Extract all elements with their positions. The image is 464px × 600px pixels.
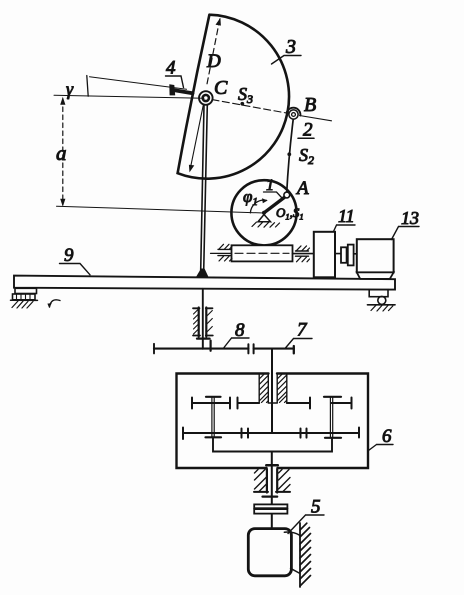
svg-text:D: D xyxy=(206,51,221,72)
gearbox top bearing block left xyxy=(259,374,268,403)
motor 5 xyxy=(248,529,291,576)
label 9 xyxy=(60,245,91,275)
label 2 xyxy=(298,120,314,141)
label gamma xyxy=(66,79,74,99)
svg-text:a: a xyxy=(56,141,67,165)
shaft 8 xyxy=(154,344,248,354)
coupling (stand-motor) xyxy=(341,245,357,266)
label 13 xyxy=(392,208,420,240)
motor 13 xyxy=(357,239,394,279)
label 8 xyxy=(224,320,249,348)
pen 4 xyxy=(169,84,192,95)
gearbox top bearing block right xyxy=(277,374,287,403)
node O1,S1 xyxy=(262,205,304,222)
svg-text:3: 3 xyxy=(285,36,296,58)
connecting frame line (U) xyxy=(213,437,332,451)
node S3 xyxy=(238,84,253,106)
right vertical gear shaft xyxy=(324,397,341,438)
axis extension beyond B xyxy=(300,116,332,121)
shaft bearing (left bracket) xyxy=(193,308,200,337)
coupling on shaft 8/7 xyxy=(248,344,253,353)
crank pivot support xyxy=(252,215,280,228)
small rotation arrow near left support xyxy=(47,300,60,308)
node S2 xyxy=(287,145,314,167)
dimension D along disc xyxy=(189,18,221,173)
svg-text:11: 11 xyxy=(338,206,355,226)
gearbox input shaft xyxy=(271,349,273,433)
angle phi1 arc xyxy=(243,187,268,213)
output bearing bracket left xyxy=(254,469,268,493)
gear train lower level xyxy=(183,428,359,440)
svg-text:B: B xyxy=(304,94,316,116)
bearing hatch blocks (right pair) xyxy=(296,246,310,262)
label 4 xyxy=(166,58,184,88)
svg-text:7: 7 xyxy=(297,320,308,341)
roller support (right, under table) xyxy=(368,290,396,311)
lower reference line to crank axis xyxy=(57,206,265,213)
bevel gear pair xyxy=(197,339,211,351)
gearbox 6 housing xyxy=(177,374,369,469)
wall mount xyxy=(284,523,310,587)
shaft 7 xyxy=(254,346,294,353)
output bearing bracket right xyxy=(276,469,290,493)
roller B xyxy=(287,94,317,119)
crankshaft bearing housing xyxy=(211,245,293,261)
label 1 xyxy=(264,177,283,198)
fixed support (left, under table) xyxy=(11,288,38,308)
crank 1 xyxy=(264,197,285,213)
left vertical gear shaft xyxy=(206,397,222,438)
gearbox output shaft xyxy=(266,452,278,529)
label 7 xyxy=(285,320,312,349)
stand 11 xyxy=(314,232,335,277)
vertical shaft below table xyxy=(202,289,204,349)
post under pivot C xyxy=(196,105,209,277)
label 5 xyxy=(288,497,324,534)
link 2 (connecting rod B-A) xyxy=(287,119,294,192)
crank disc circle xyxy=(231,180,296,245)
shaft bearing (right bracket) xyxy=(206,308,213,337)
angle gamma: horizontal reference line xyxy=(54,95,204,98)
axis line C to B (S3 axis) xyxy=(212,100,288,114)
pivot C xyxy=(199,77,228,105)
angle gamma tick xyxy=(87,76,88,97)
svg-text:2: 2 xyxy=(303,120,313,141)
bearing hatch blocks (left pair) xyxy=(218,244,232,261)
half-disc 3 xyxy=(178,15,289,179)
table 9 (bench plate) xyxy=(14,276,395,290)
shaft end tick xyxy=(263,496,278,498)
label 11 xyxy=(334,206,356,232)
svg-text:γ: γ xyxy=(66,79,74,99)
dimension a xyxy=(56,97,67,207)
pin A xyxy=(284,178,309,199)
label 6 xyxy=(368,426,393,451)
svg-text:13: 13 xyxy=(401,208,419,228)
svg-text:C: C xyxy=(214,77,228,99)
label 3 xyxy=(272,36,302,64)
angle gamma: inclined line xyxy=(90,77,187,90)
output coupling xyxy=(254,504,287,513)
shaft housing to stand xyxy=(293,253,342,255)
gear train upper level xyxy=(192,398,352,409)
svg-text:A: A xyxy=(295,178,309,199)
